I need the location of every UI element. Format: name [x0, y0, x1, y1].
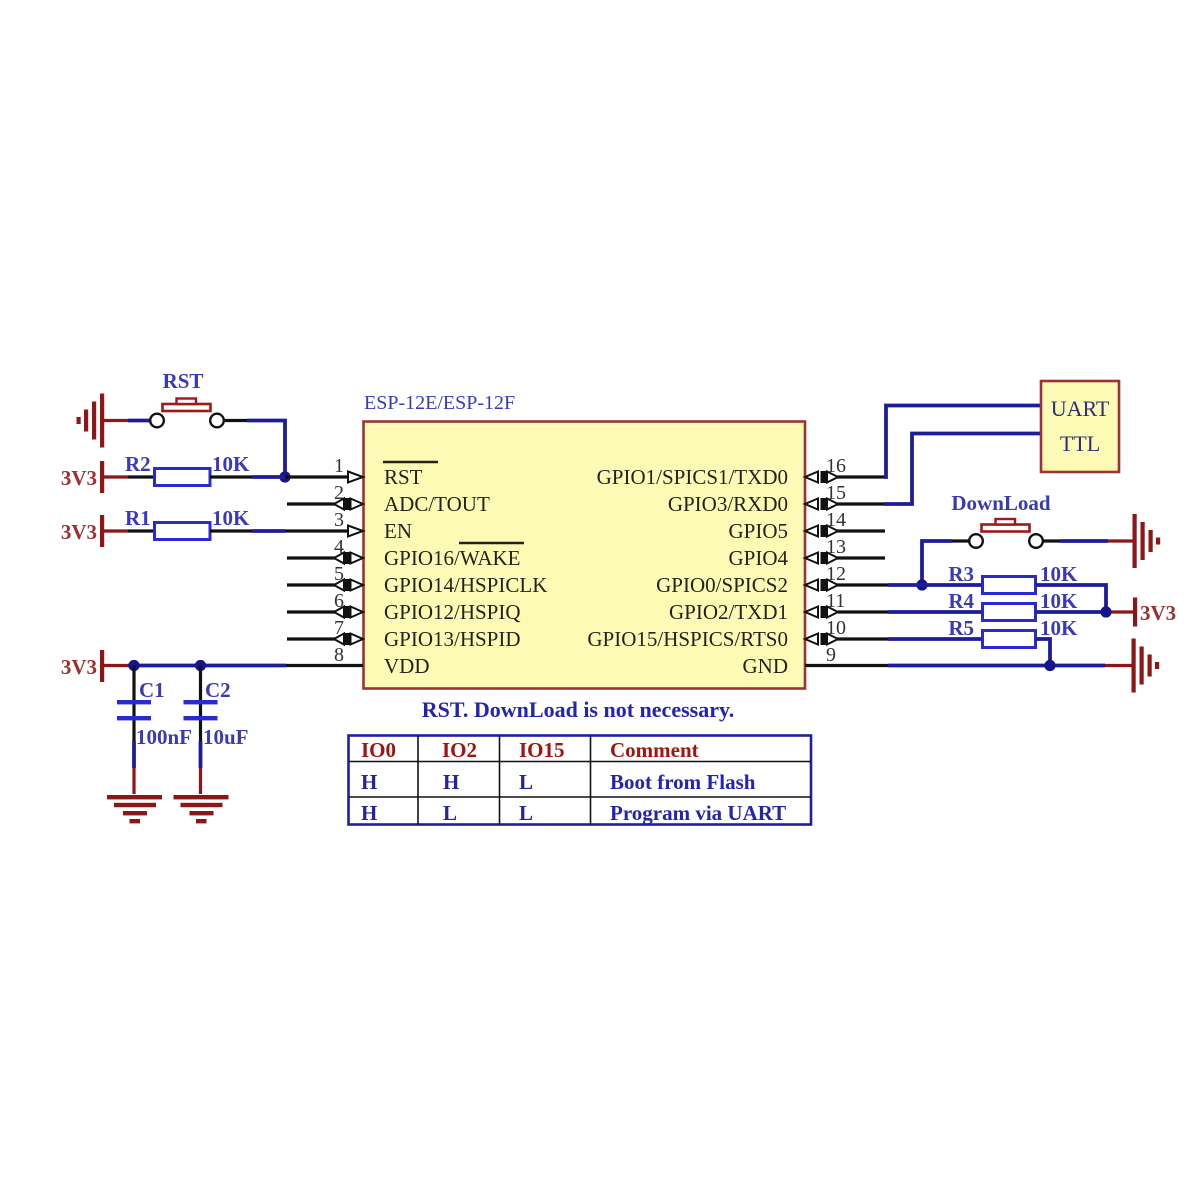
resistor R5 body [983, 631, 1036, 648]
svg-text:GPIO15/HSPICS/RTS0: GPIO15/HSPICS/RTS0 [587, 627, 788, 651]
svg-text:L: L [443, 801, 457, 825]
capacitor C1 bottom lead (blue then red) [132, 741, 136, 794]
wire pin6 stub (black) [287, 610, 335, 613]
svg-text:GPIO12/HSPIQ: GPIO12/HSPIQ [384, 600, 521, 624]
wire RST button to pin1 net (black then blue, corner down to junction) [224, 421, 286, 478]
pin 3 input arrow [348, 526, 363, 537]
svg-text:H: H [361, 801, 377, 825]
wire 3V3 rail to VDD pin8 (red, blue, black) [104, 664, 363, 667]
svg-text:10K: 10K [1040, 562, 1078, 586]
ground (right of DownLoad, pointing right) [1133, 514, 1161, 568]
svg-text:C2: C2 [205, 678, 231, 702]
table boot-mode outer border [349, 736, 812, 825]
svg-text:GPIO16/WAKE: GPIO16/WAKE [384, 546, 521, 570]
svg-text:Boot from Flash: Boot from Flash [610, 770, 756, 794]
svg-text:3V3: 3V3 [61, 466, 97, 490]
svg-text:R3: R3 [948, 562, 974, 586]
node junction pin12/button (diamond) [916, 579, 927, 590]
pin 5 bidirectional arrow [334, 579, 363, 591]
svg-text:IO15: IO15 [519, 738, 565, 762]
svg-text:10K: 10K [1040, 589, 1078, 613]
power 3V3 (right) bar [1133, 598, 1137, 627]
table horizontal divider 1 [349, 761, 812, 763]
wire pin15 stub (black) [837, 502, 884, 505]
resistor R3 body [983, 577, 1036, 594]
wire pin5 stub (black) [287, 583, 335, 586]
svg-text:3V3: 3V3 [61, 520, 97, 544]
wire pin14 stub (black) [837, 529, 885, 532]
ground (below C1) [107, 795, 162, 823]
pin 6 bidirectional arrow [334, 606, 363, 618]
wire junction to pin1 stub (black) [285, 475, 349, 478]
svg-text:100nF: 100nF [136, 725, 192, 749]
pushbutton RST body [150, 399, 224, 428]
svg-text:L: L [519, 770, 533, 794]
pin 13 bidirectional arrow [805, 552, 838, 564]
svg-text:GPIO1/SPICS1/TXD0: GPIO1/SPICS1/TXD0 [597, 465, 788, 489]
wire 3V3 to R1 (red then black) [104, 529, 154, 532]
node junction R5/GND (diamond) [1044, 660, 1055, 671]
resistor R4 body [983, 604, 1036, 621]
wire DownLoad button left leg (blue corner down to pin12 net) [922, 541, 952, 585]
power 3V3 (for R1) bar [100, 515, 104, 547]
svg-text:L: L [519, 801, 533, 825]
svg-text:GPIO4: GPIO4 [728, 546, 788, 570]
svg-text:Program via UART: Program via UART [610, 801, 786, 825]
node junction C2 tap (diamond) [195, 660, 206, 671]
svg-text:R2: R2 [125, 452, 151, 476]
svg-text:RST. DownLoad is not necessary: RST. DownLoad is not necessary. [422, 697, 735, 722]
svg-text:10uF: 10uF [203, 725, 249, 749]
wire pin15 to UART (blue) [884, 434, 1041, 505]
wire pin16 stub (black) [837, 475, 884, 478]
wire R5 to GND net (blue corner down) [1036, 639, 1051, 666]
pin 4 bidirectional arrow [334, 552, 363, 564]
capacitor C1 plates [117, 700, 151, 720]
pin 12 bidirectional arrow [805, 579, 838, 591]
ground (top left, pointing left) [77, 394, 105, 448]
power 3V3 (VDD rail) bar [100, 650, 104, 682]
svg-text:GND: GND [743, 654, 789, 678]
svg-text:EN: EN [384, 519, 412, 543]
svg-text:10K: 10K [212, 452, 250, 476]
wire pin2 stub (black) [287, 502, 335, 505]
svg-text:10K: 10K [1040, 616, 1078, 640]
ground (below C2) [174, 795, 229, 823]
wire junction to R3 (blue) [888, 583, 982, 587]
svg-text:GPIO5: GPIO5 [728, 519, 788, 543]
table vertical divider 3 [590, 736, 592, 825]
wire pin10 to R5 (black) [837, 637, 888, 640]
pin 11 bidirectional arrow [805, 606, 838, 618]
capacitor C2 top lead (black) [199, 666, 202, 742]
svg-text:IO2: IO2 [442, 738, 477, 762]
svg-text:VDD: VDD [384, 654, 430, 678]
pin 2 bidirectional arrow [334, 498, 363, 510]
pin 10 bidirectional arrow [805, 633, 838, 645]
resistor R2 body [155, 469, 211, 486]
svg-text:GPIO0/SPICS2: GPIO0/SPICS2 [656, 573, 788, 597]
ground (right of GND pin, pointing right) [1132, 639, 1160, 693]
svg-text:GPIO14/HSPICLK: GPIO14/HSPICLK [384, 573, 547, 597]
svg-text:TTL: TTL [1060, 431, 1100, 456]
svg-text:R4: R4 [948, 589, 974, 613]
wire 3V3 to R2 (red then black) [104, 475, 154, 478]
wire pin11 to R4 (blue) [838, 610, 888, 613]
wire pin4 stub (black) [287, 556, 335, 559]
svg-text:DownLoad: DownLoad [951, 491, 1051, 515]
wire pin12 stub (black) [837, 583, 888, 586]
svg-text:ESP-12E/ESP-12F: ESP-12E/ESP-12F [364, 392, 515, 414]
node junction pin1/R2 (diamond) [279, 471, 290, 482]
capacitor C1 top lead (black) [132, 666, 135, 742]
capacitor C2 plates [184, 700, 218, 720]
svg-text:1: 1 [334, 455, 344, 477]
wire R3 to 3V3 junction (blue corner) [1036, 585, 1107, 612]
svg-text:Comment: Comment [610, 738, 699, 762]
svg-text:GPIO13/HSPID: GPIO13/HSPID [384, 627, 521, 651]
svg-text:UART: UART [1051, 396, 1110, 421]
wire pin16 to UART (blue) [884, 406, 1041, 478]
pin 14 bidirectional arrow [805, 525, 838, 537]
pin 16 bidirectional arrow [805, 471, 838, 483]
svg-text:C1: C1 [139, 678, 165, 702]
svg-text:IO0: IO0 [361, 738, 396, 762]
svg-text:8: 8 [334, 644, 344, 666]
pin 4 label GPIO16/WAKE (WAKE overlined) [384, 543, 524, 570]
svg-text:H: H [361, 770, 377, 794]
capacitor C2 bottom lead (blue then red) [199, 741, 203, 794]
svg-text:9: 9 [826, 644, 836, 666]
svg-text:RST: RST [163, 369, 204, 393]
wire R1 to pin3 EN (black, blue, black) [210, 529, 349, 532]
wire R2 to junction (black then blue) [210, 475, 285, 478]
svg-text:R1: R1 [125, 506, 151, 530]
pin 1 label RST (with overline) [383, 462, 438, 489]
svg-text:H: H [443, 770, 459, 794]
node junction C1 tap (diamond) [128, 660, 139, 671]
wire pin9 GND to ground (black then red) [805, 664, 1132, 667]
svg-text:10K: 10K [212, 506, 250, 530]
pushbutton DownLoad body [969, 519, 1043, 548]
wire ground to RST button (red then blue) [103, 419, 151, 422]
node junction R3/R4 3V3 (diamond) [1100, 606, 1111, 617]
chip U1 ESP-12E/ESP-12F body [364, 422, 806, 689]
wire pin13 stub (black) [837, 556, 885, 559]
power 3V3 (for R2) bar [100, 461, 104, 493]
table vertical divider 2 [499, 736, 501, 825]
resistor R1 body [155, 523, 211, 540]
wire button right to ground (black, blue, red) [1043, 539, 1134, 542]
svg-text:R5: R5 [948, 616, 974, 640]
svg-text:GPIO2/TXD1: GPIO2/TXD1 [669, 600, 788, 624]
wire button left (black) [952, 539, 970, 542]
svg-text:3: 3 [334, 509, 344, 531]
svg-text:3V3: 3V3 [61, 655, 97, 679]
svg-text:ADC/TOUT: ADC/TOUT [384, 492, 490, 516]
svg-text:GPIO3/RXD0: GPIO3/RXD0 [668, 492, 788, 516]
table horizontal divider 2 [349, 796, 812, 798]
pin 15 bidirectional arrow [805, 498, 838, 510]
pin 1 input arrow [348, 472, 363, 483]
svg-text:RST: RST [384, 465, 423, 489]
svg-text:3V3: 3V3 [1140, 601, 1176, 625]
UART TTL box [1041, 381, 1119, 472]
pin 7 bidirectional arrow [334, 633, 363, 645]
table vertical divider 1 [417, 736, 419, 825]
wire R4 to 3V3 (blue then red) [1036, 610, 1134, 614]
wire pin7 stub (black) [287, 637, 335, 640]
